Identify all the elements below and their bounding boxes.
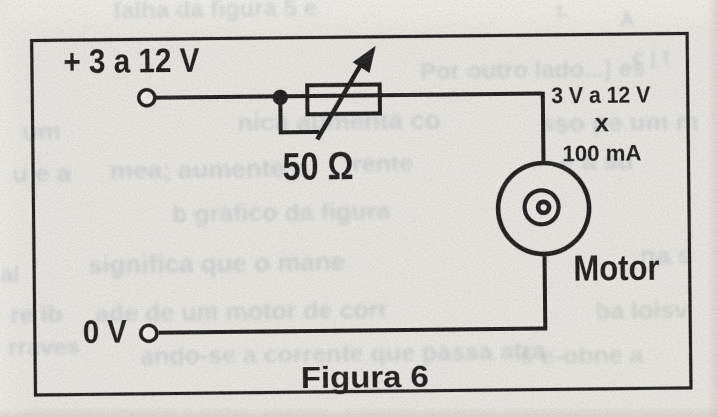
- paper shading top-left lighter: [0, 0, 717, 34]
- wire right vertical: [541, 92, 546, 162]
- wire motor to bottom: [158, 254, 545, 332]
- bleed-through text from reverse page: [113, 0, 317, 25]
- node junction: [273, 90, 288, 105]
- terminal 0V: [141, 325, 157, 341]
- motor M1: [498, 163, 590, 255]
- wire wiper connection: [280, 100, 319, 132]
- wire top: [155, 93, 542, 97]
- rheostat R1 body: [307, 85, 380, 115]
- rheostat wiper arrow: [316, 46, 377, 140]
- terminal +3V: [139, 90, 155, 106]
- figure frame: [32, 33, 691, 395]
